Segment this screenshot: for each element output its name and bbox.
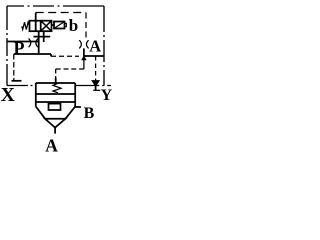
svg-text:X: X [1,85,15,106]
control line vertical to A junction [83,60,85,69]
up arrowhead at A junction [81,55,86,60]
svg-text:A: A [89,37,101,56]
enclosure chain border top [7,5,104,7]
solenoid b diagonal [54,22,65,29]
orifice at A [79,40,88,48]
svg-text:b: b [69,16,78,35]
wire valve port 2 [43,31,45,42]
solenoid b box [54,22,65,29]
pilot valve body [30,21,52,32]
pilot valve right box X [41,21,52,32]
enclosure chain border bottom [7,85,36,87]
svg-text:B: B [84,105,95,122]
poppet rect [49,104,61,110]
P port line [7,41,39,43]
control line dashed mid [51,55,79,57]
svg-text:A: A [45,136,58,156]
wire riser from valve top [35,13,37,21]
wire jog [50,54,52,56]
cartridge box right side [74,83,76,107]
solenoid b link [52,24,55,26]
enclosure chain border right [103,6,105,86]
control stub solid [55,78,57,84]
control line dashed horizontal [56,68,84,70]
Y drain arrow stem [95,81,97,83]
cartridge line 2 [36,101,75,103]
Y stub foot [93,89,100,91]
spring [22,22,30,29]
A port line [83,55,104,57]
wire valve port 1 [38,31,40,54]
enclosure chain border left [6,6,8,86]
X plug crossbar [12,80,22,82]
svg-text:P: P [14,38,25,58]
pilot valve left box flow path [35,21,37,32]
A port stub [54,128,56,134]
pilot line dashed right vertical [85,13,87,41]
wire bar below valve [34,36,51,38]
seat diagonal left [36,107,45,119]
orifice at P [29,38,38,47]
Y stub below border [95,86,97,91]
seat diagonal right [65,107,75,119]
cartridge spring [53,83,61,93]
orifice A stub [83,48,85,56]
wire horizontal mid [14,53,51,55]
B port line [75,106,81,108]
solenoid connector nub [65,23,67,26]
X pilot line dashed [13,54,15,80]
pilot line dashed top [36,12,86,14]
control stub to cartridge [55,69,57,78]
cartridge box left side [35,83,37,107]
Y drain arrowhead [93,81,99,86]
poppet cone triangle [45,119,65,128]
enclosure chain border bottom right [75,85,111,87]
svg-text:Y: Y [101,87,113,104]
cartridge line 1 [36,93,75,95]
cartridge box top [36,82,75,84]
pilot valve box divider [40,21,42,32]
Y drain line dashed [95,56,97,81]
